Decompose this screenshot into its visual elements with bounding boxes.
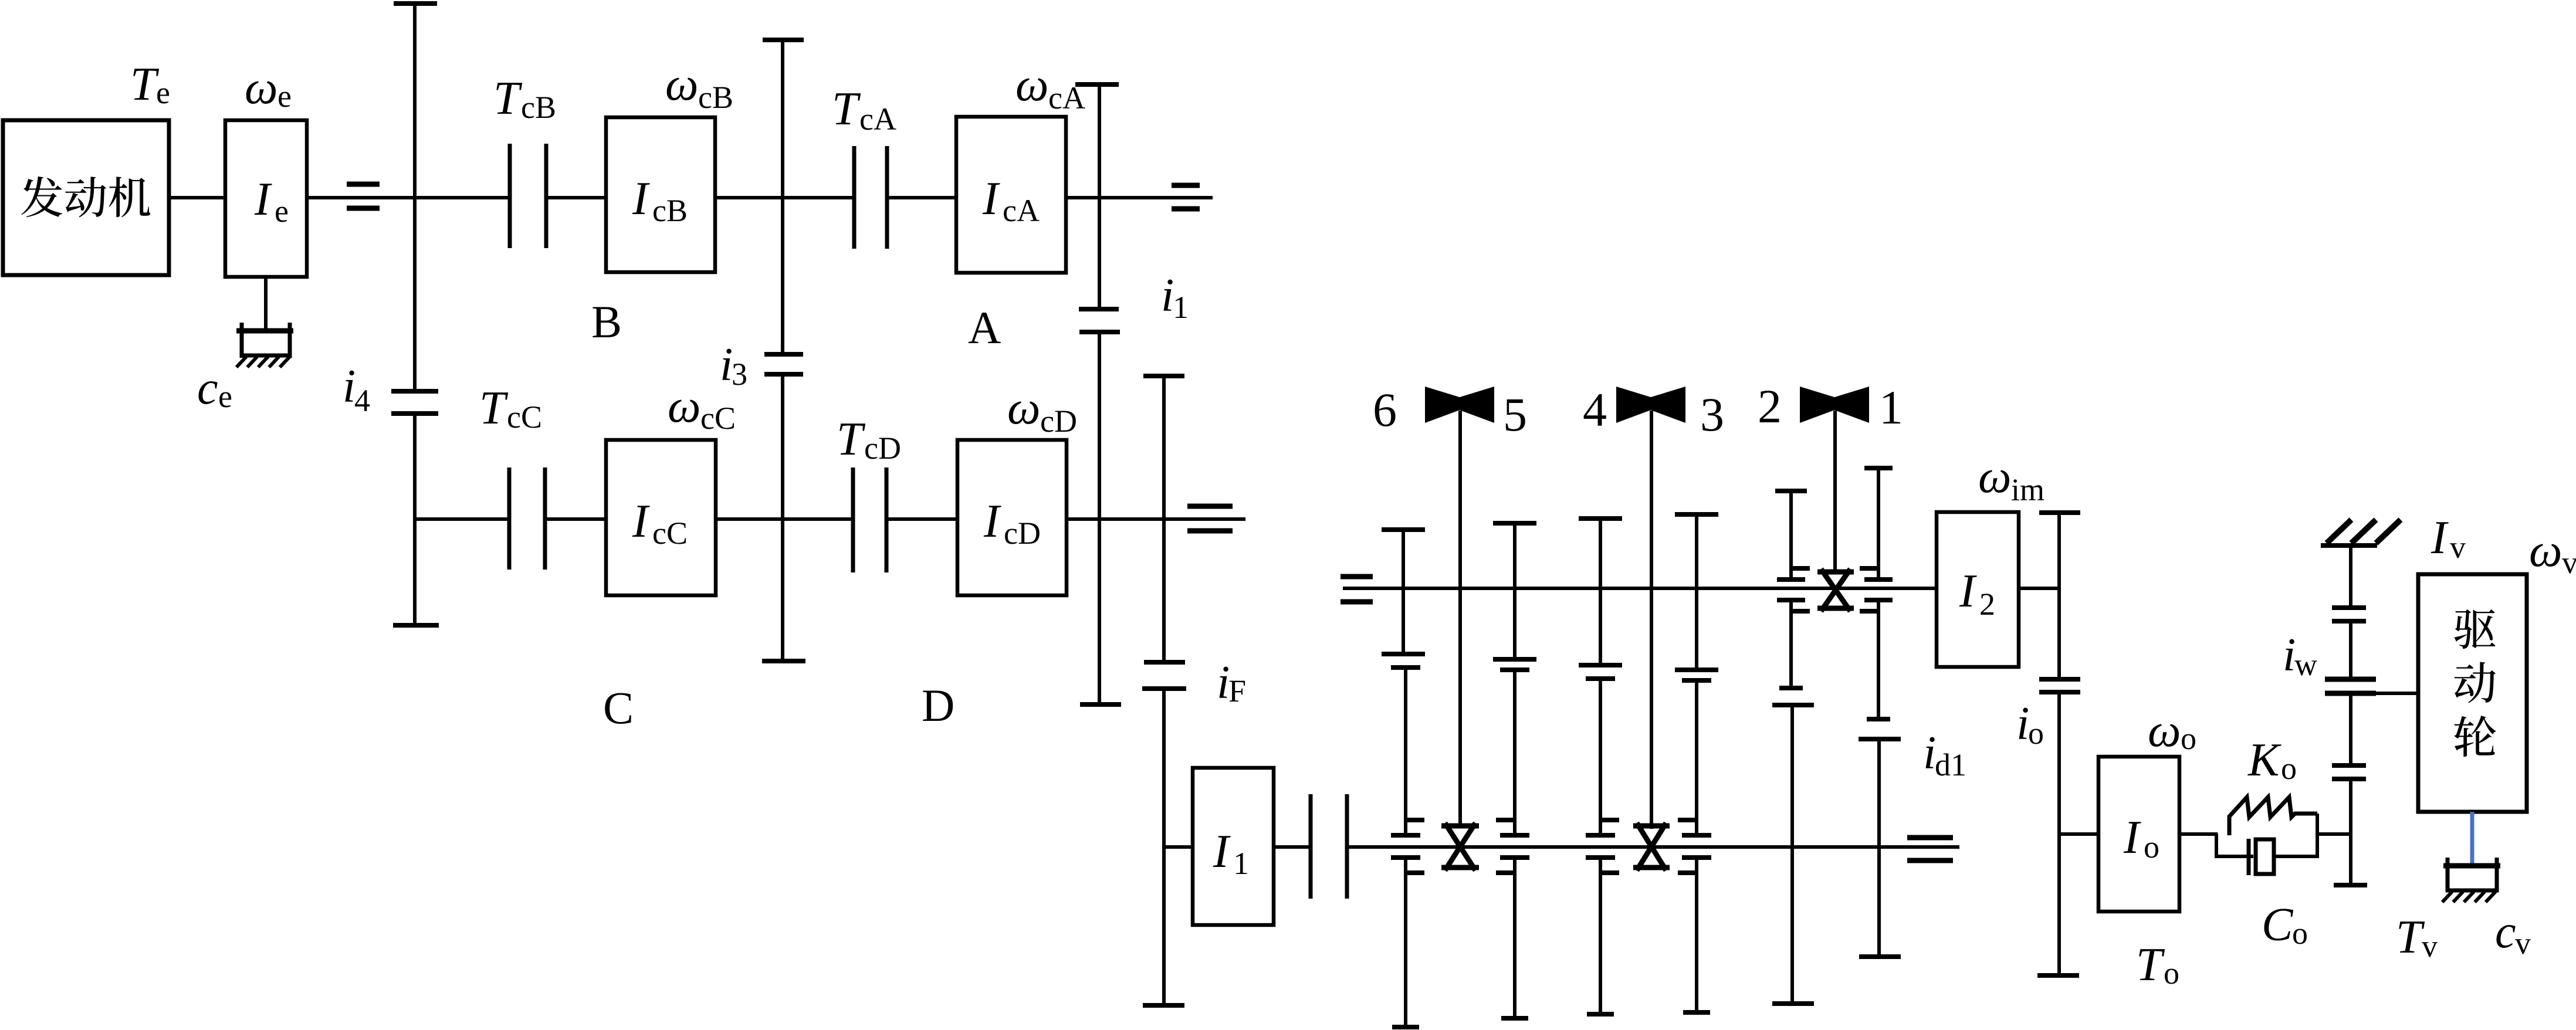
svg-text:2: 2 bbox=[1758, 380, 1782, 433]
svg-text:ω: ω bbox=[2529, 525, 2562, 577]
svg-text:w: w bbox=[2294, 647, 2317, 682]
shift fork 5-6 bbox=[1425, 387, 1494, 828]
wire I2 to shaft io bbox=[2019, 587, 2059, 590]
svg-text:I: I bbox=[632, 496, 650, 547]
svg-text:I: I bbox=[2431, 512, 2449, 564]
svg-text:i: i bbox=[2016, 698, 2029, 750]
svg-text:cB: cB bbox=[652, 193, 688, 228]
gear 5 free gear on main shaft bbox=[1496, 670, 1529, 1018]
shaft iF lower segment bbox=[1143, 689, 1184, 1005]
bearing marks row2 right end bbox=[1187, 506, 1233, 531]
label ωo bbox=[2148, 705, 2196, 757]
label i4 bbox=[343, 361, 370, 418]
label id1 bbox=[1923, 727, 1966, 782]
shift fork 1-2 bbox=[1800, 387, 1869, 574]
label ωcA bbox=[1015, 59, 1085, 116]
wire IcA to shaft end bbox=[1066, 196, 1213, 199]
svg-text:6: 6 bbox=[1373, 383, 1397, 436]
shaft i4 upper segment bbox=[394, 4, 437, 391]
svg-text:5: 5 bbox=[1503, 388, 1527, 441]
gear pair io bbox=[2039, 679, 2080, 692]
label cv bbox=[2495, 906, 2531, 961]
ground anchor at top of shaft iw bbox=[2321, 520, 2401, 546]
clutch TcD bbox=[851, 467, 855, 572]
clutch TcA bbox=[852, 146, 857, 249]
svg-text:cD: cD bbox=[1040, 404, 1077, 439]
svg-text:3: 3 bbox=[1700, 388, 1724, 441]
shift fork 3-4 bbox=[1616, 387, 1685, 829]
svg-text:ω: ω bbox=[665, 59, 698, 110]
svg-text:T: T bbox=[2396, 912, 2425, 963]
svg-text:o: o bbox=[2028, 716, 2044, 751]
label i1 bbox=[1161, 270, 1189, 325]
clutch TcC bbox=[507, 467, 512, 570]
label TcB bbox=[493, 73, 556, 125]
svg-text:1: 1 bbox=[1233, 846, 1249, 881]
svg-text:e: e bbox=[218, 379, 232, 414]
label Ko bbox=[2247, 734, 2297, 786]
shaft iw lower segment bbox=[2349, 693, 2352, 765]
svg-text:i: i bbox=[1161, 270, 1174, 321]
svg-text:i: i bbox=[2283, 629, 2296, 681]
wire IcB to clutch TcA bbox=[715, 196, 854, 199]
gear 1 free gear on countershaft bbox=[1860, 468, 1893, 719]
gear pair i4 bbox=[391, 391, 438, 414]
svg-text:4: 4 bbox=[354, 383, 370, 418]
bearing marks gearbox shaft right end bbox=[1907, 838, 1953, 860]
gear 6 free gear on main shaft bbox=[1391, 668, 1424, 1027]
svg-text:o: o bbox=[2144, 829, 2159, 865]
label TcC bbox=[479, 382, 542, 435]
svg-text:T: T bbox=[2136, 939, 2165, 991]
gear pair i3 bbox=[764, 354, 803, 374]
clutch TcB bbox=[508, 144, 512, 248]
synchronizer 1-2 bbox=[1817, 569, 1854, 611]
svg-text:D: D bbox=[922, 680, 954, 731]
svg-text:cB: cB bbox=[698, 80, 733, 115]
svg-text:ω: ω bbox=[2148, 705, 2181, 757]
shaft i3 lower segment bbox=[762, 374, 805, 661]
bearing marks row1 right end bbox=[1172, 185, 1200, 209]
svg-text:cA: cA bbox=[859, 101, 896, 137]
shaft iw segment from ground bbox=[2349, 546, 2352, 608]
svg-text:1: 1 bbox=[1879, 381, 1903, 434]
svg-text:v: v bbox=[2562, 545, 2576, 580]
gear 5 on countershaft bbox=[1493, 523, 1536, 659]
label TcD bbox=[837, 414, 901, 466]
svg-text:1: 1 bbox=[1173, 290, 1189, 325]
svg-text:I: I bbox=[632, 173, 650, 225]
svg-text:K: K bbox=[2247, 734, 2281, 786]
svg-text:I: I bbox=[1213, 826, 1231, 877]
svg-text:B: B bbox=[591, 296, 622, 347]
gear 4 on countershaft bbox=[1579, 519, 1622, 665]
wire shaft io to Io bbox=[2059, 832, 2098, 836]
svg-text:4: 4 bbox=[1583, 383, 1607, 436]
label Tv bbox=[2396, 912, 2438, 964]
inertia I1 bbox=[1193, 768, 1274, 925]
svg-text:C: C bbox=[603, 682, 634, 733]
shaft iw middle segment bbox=[2349, 621, 2352, 679]
countershaft bbox=[1343, 587, 1937, 590]
bearing marks on input shaft bbox=[347, 184, 380, 208]
svg-text:I: I bbox=[2123, 812, 2141, 863]
wire shaft iF to I1 bbox=[1164, 845, 1193, 849]
gear 6 on countershaft bbox=[1382, 530, 1425, 654]
svg-text:3: 3 bbox=[732, 357, 747, 392]
label ωim bbox=[1978, 451, 2044, 507]
svg-text:c: c bbox=[197, 362, 218, 414]
svg-text:e: e bbox=[275, 194, 289, 229]
wire engine to Ie bbox=[169, 196, 225, 199]
engine block 发动机 bbox=[3, 120, 169, 275]
inertia Io bbox=[2098, 757, 2179, 912]
svg-text:I: I bbox=[982, 173, 1000, 225]
svg-text:cC: cC bbox=[507, 399, 542, 435]
wire Io to spring-damper bbox=[2179, 832, 2218, 836]
svg-text:F: F bbox=[1228, 673, 1246, 709]
svg-text:i: i bbox=[720, 339, 733, 391]
svg-text:i: i bbox=[343, 361, 356, 412]
svg-text:ω: ω bbox=[668, 381, 700, 432]
svg-text:v: v bbox=[2515, 926, 2531, 961]
svg-text:T: T bbox=[832, 83, 861, 135]
svg-text:T: T bbox=[130, 59, 160, 110]
label io bbox=[2016, 698, 2044, 751]
label Iv bbox=[2431, 512, 2466, 565]
inertia IcD bbox=[957, 440, 1067, 595]
svg-text:T: T bbox=[837, 414, 866, 465]
svg-text:I: I bbox=[1959, 565, 1977, 617]
svg-text:i: i bbox=[1923, 727, 1936, 779]
label Te bbox=[130, 59, 170, 110]
svg-text:v: v bbox=[2450, 530, 2466, 565]
svg-text:ω: ω bbox=[245, 62, 277, 114]
wire clutch TcB to IcB bbox=[546, 196, 606, 199]
synchronizer 3-4 bbox=[1633, 823, 1670, 870]
inertia IcB bbox=[606, 117, 715, 272]
svg-text:T: T bbox=[493, 73, 523, 124]
gear 2 free gear on countershaft bbox=[1775, 491, 1810, 688]
svg-text:e: e bbox=[277, 79, 292, 114]
svg-text:c: c bbox=[2495, 906, 2516, 958]
gear pair iw bbox=[2332, 608, 2366, 621]
shaft i1 upper segment bbox=[1075, 84, 1119, 309]
label ωcB bbox=[665, 59, 733, 115]
svg-text:cC: cC bbox=[700, 401, 736, 436]
label To bbox=[2136, 939, 2179, 991]
wire I1 to clutch bbox=[1274, 845, 1311, 849]
synchronizer 5-6 bbox=[1441, 823, 1479, 870]
svg-text:cB: cB bbox=[521, 90, 556, 125]
inertia I2 bbox=[1937, 512, 2019, 667]
svg-text:o: o bbox=[2281, 751, 2297, 786]
shaft io lower segment bbox=[2037, 692, 2079, 975]
wire shaft i4 to clutch TcB bbox=[415, 196, 510, 199]
label ωv bbox=[2529, 525, 2576, 580]
gear mesh to drive wheel bbox=[2325, 679, 2376, 693]
svg-text:o: o bbox=[2181, 721, 2196, 756]
svg-text:cC: cC bbox=[652, 516, 688, 551]
wire gear to drive wheel box bbox=[2376, 692, 2418, 695]
wire IcC to clutch TcD bbox=[716, 517, 853, 521]
svg-text:C: C bbox=[2262, 899, 2294, 951]
svg-text:T: T bbox=[479, 382, 509, 434]
svg-text:A: A bbox=[968, 302, 1001, 353]
wire clutch TcD to IcD bbox=[886, 517, 957, 521]
svg-text:cD: cD bbox=[1004, 516, 1041, 551]
damper ce to ground bbox=[236, 323, 293, 367]
shaft iF upper segment bbox=[1143, 376, 1184, 662]
gear pair on wheel shaft bbox=[2332, 765, 2366, 779]
wire IcD to shaft end bbox=[1067, 517, 1245, 521]
shaft io upper segment bbox=[2039, 513, 2080, 679]
wire Ie to shaft i4 bbox=[307, 196, 417, 199]
wire clutch TcC to IcC bbox=[545, 517, 606, 521]
label Co bbox=[2262, 899, 2308, 951]
svg-text:e: e bbox=[156, 75, 170, 110]
shaft i1 lower segment bbox=[1080, 332, 1121, 704]
svg-text:o: o bbox=[2292, 916, 2308, 951]
svg-text:o: o bbox=[2164, 956, 2179, 991]
spring Ko and damper Co parallel branch bbox=[2216, 797, 2317, 875]
svg-text:ω: ω bbox=[1978, 451, 2011, 503]
inertia IcA bbox=[956, 117, 1066, 273]
label i3 bbox=[720, 339, 747, 392]
clutch at gearbox input bbox=[1309, 794, 1313, 899]
label TcA bbox=[832, 83, 896, 137]
shaft i3 upper segment bbox=[763, 40, 804, 354]
wire shaft i4 to clutch TcC bbox=[415, 517, 509, 521]
damper cv to ground bbox=[2442, 858, 2500, 902]
svg-text:ω: ω bbox=[1007, 382, 1040, 434]
wire clutch TcA to IcA bbox=[887, 196, 956, 199]
label ce bbox=[197, 362, 232, 414]
shaft iw bottom segment bbox=[2334, 779, 2367, 885]
gear 1 fixed gear id1 on main shaft bbox=[1859, 739, 1901, 957]
svg-text:ω: ω bbox=[1015, 59, 1048, 111]
svg-text:2: 2 bbox=[1979, 587, 1995, 622]
gear 2 fixed gear on main shaft bbox=[1772, 705, 1814, 1004]
svg-text:I: I bbox=[983, 496, 1001, 547]
drive wheel block 驱动轮 bbox=[2418, 574, 2527, 812]
label ωcD bbox=[1007, 382, 1077, 439]
gear 3 on countershaft bbox=[1675, 514, 1718, 670]
svg-text:d1: d1 bbox=[1935, 747, 1966, 782]
svg-text:cA: cA bbox=[1003, 193, 1040, 228]
shaft i4 lower segment bbox=[413, 414, 417, 625]
wire Ie to ground damper bbox=[264, 275, 268, 332]
inertia Ie bbox=[225, 120, 307, 277]
label iF bbox=[1217, 657, 1246, 709]
inertia IcC bbox=[606, 440, 716, 595]
wire spring-damper to shaft iw bbox=[2317, 832, 2351, 836]
svg-text:I: I bbox=[254, 174, 272, 225]
svg-text:i: i bbox=[1217, 657, 1230, 709]
gear pair i1 bbox=[1079, 309, 1120, 332]
svg-text:v: v bbox=[2422, 929, 2438, 964]
svg-text:im: im bbox=[2011, 472, 2044, 507]
gear 4 free gear on main shaft bbox=[1586, 679, 1619, 1014]
gear pair iF bbox=[1142, 662, 1186, 689]
svg-text:cD: cD bbox=[864, 431, 901, 466]
gear 3 free gear on main shaft bbox=[1678, 680, 1711, 1012]
label iw bbox=[2283, 629, 2317, 682]
gearbox input shaft bbox=[1347, 845, 1959, 849]
bearing marks countershaft left end bbox=[1341, 577, 1373, 602]
wire drive wheel to damper cv bbox=[2470, 812, 2475, 867]
label ωe bbox=[245, 62, 292, 114]
label ωcC bbox=[668, 381, 736, 436]
